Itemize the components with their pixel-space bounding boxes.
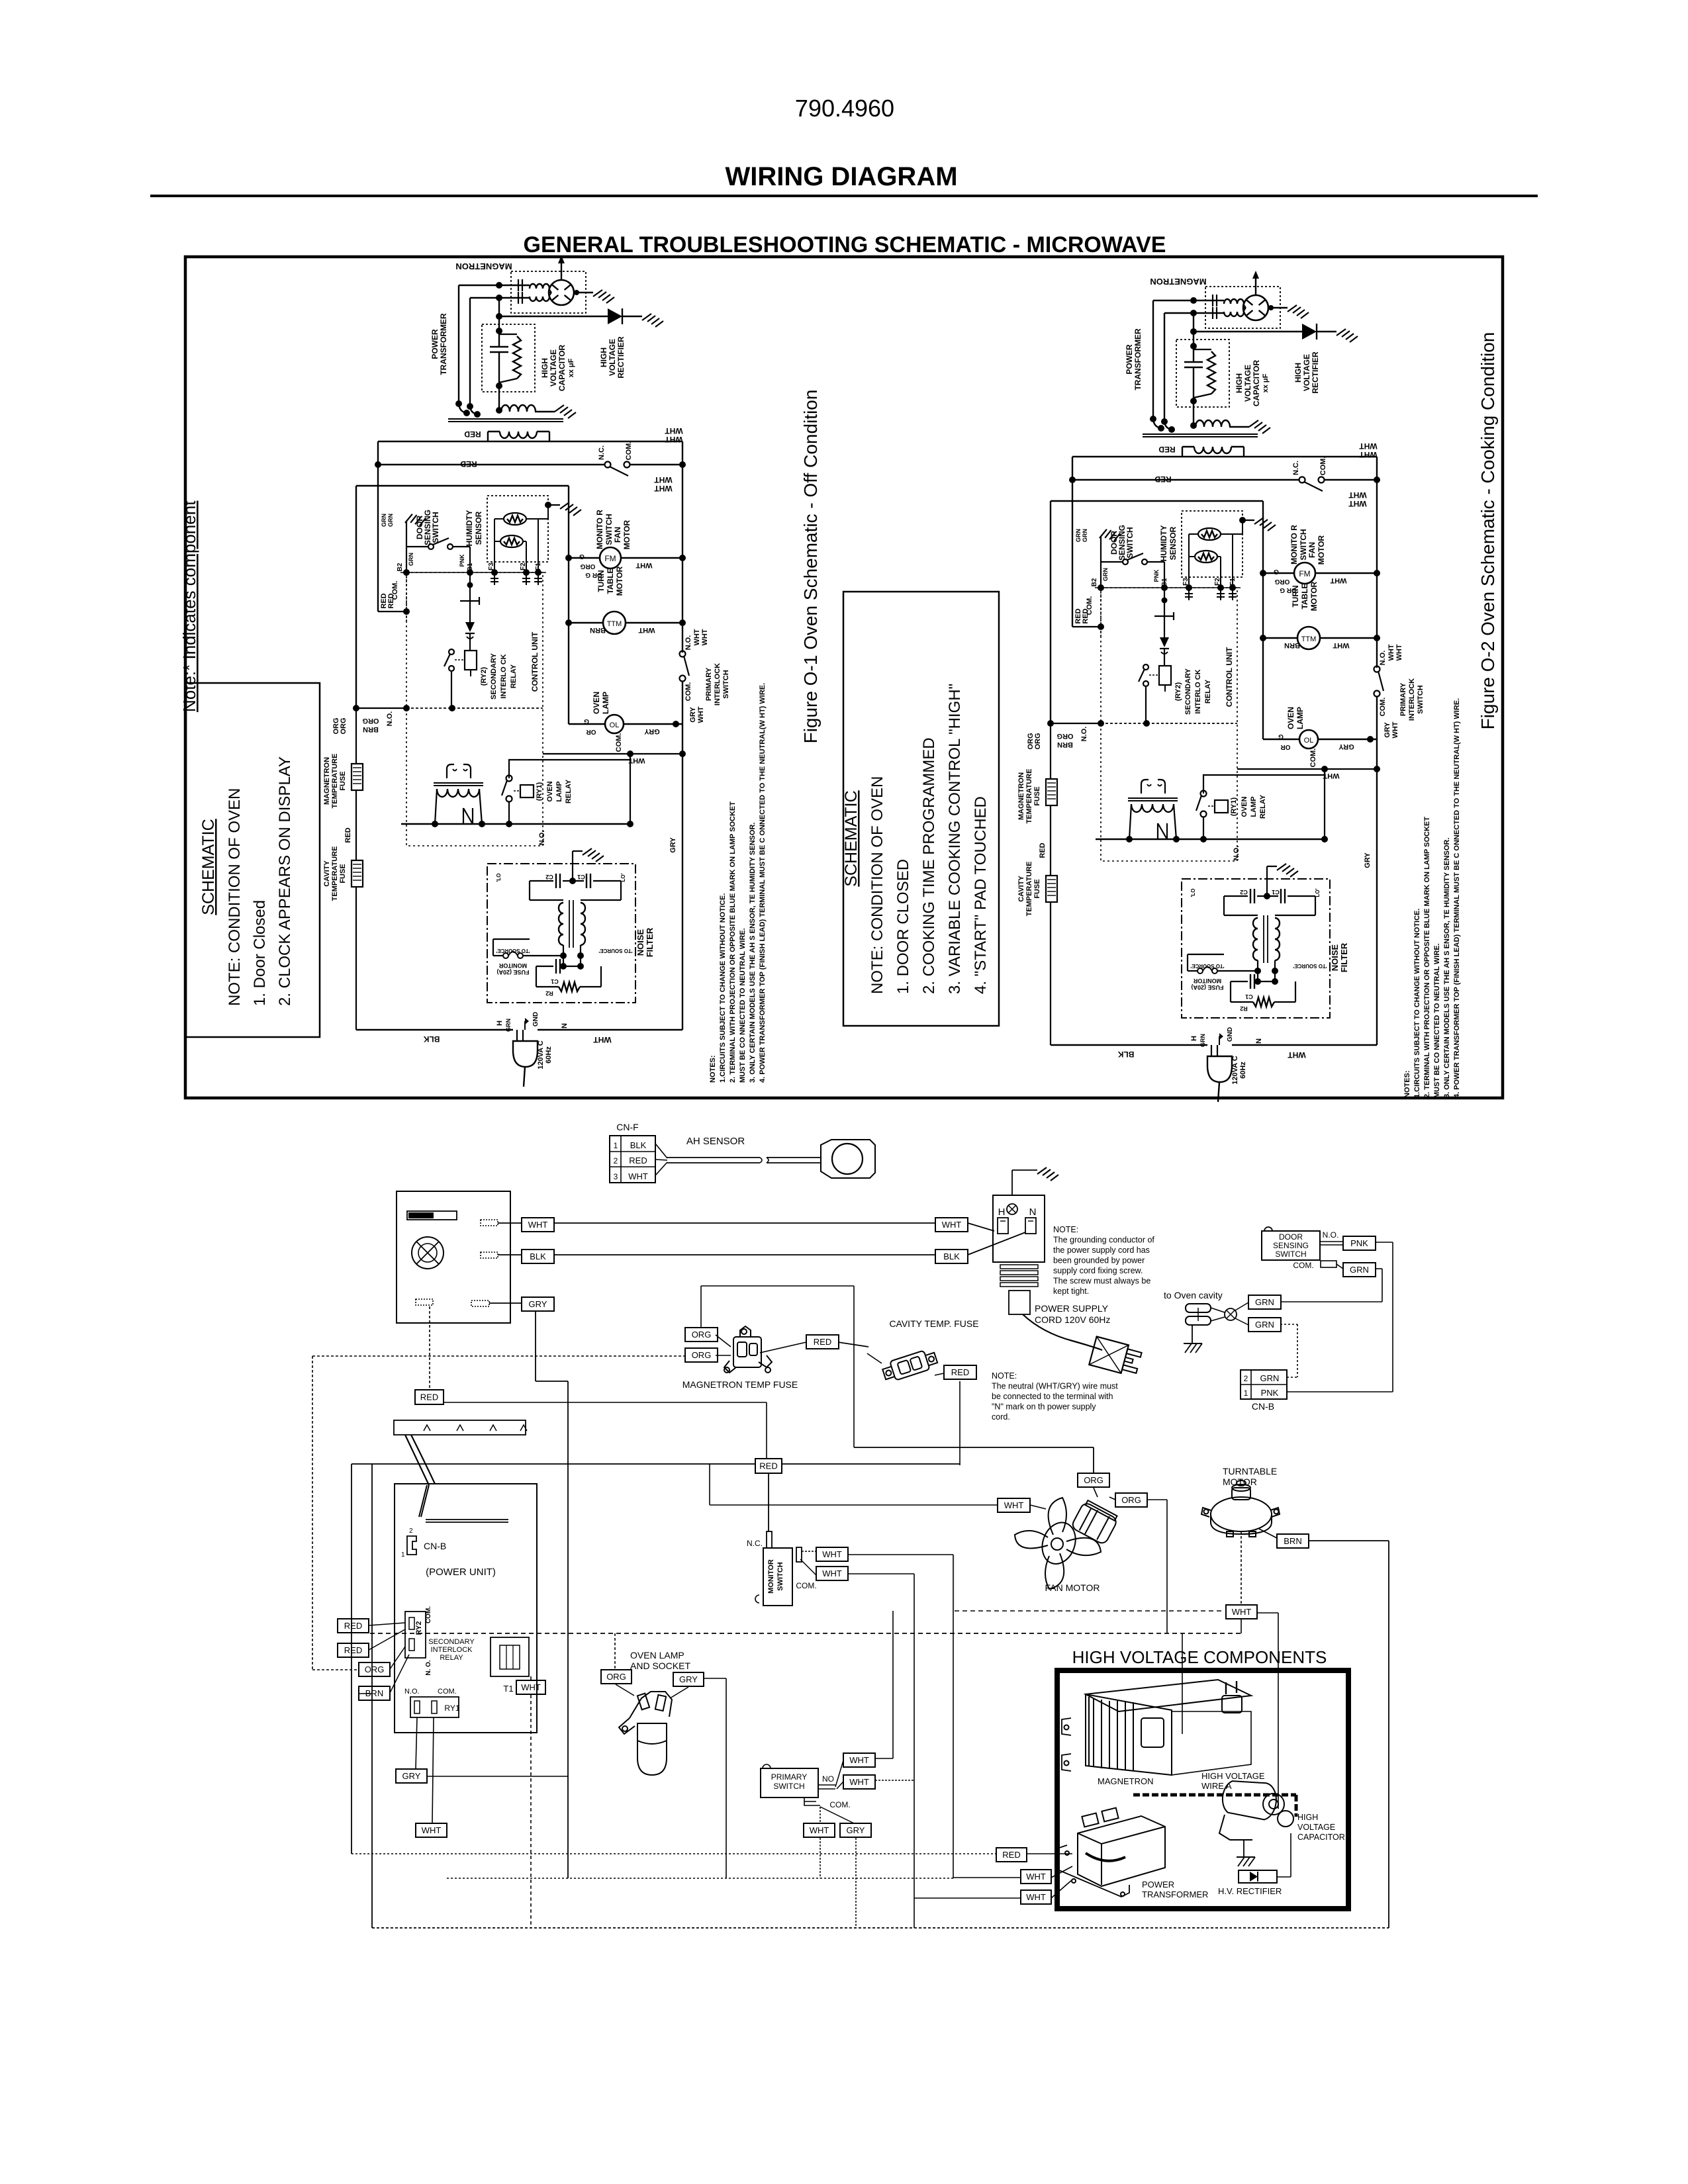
svg-text:WHT: WHT (849, 1777, 869, 1787)
svg-text:1. Door Closed: 1. Door Closed (251, 900, 269, 1006)
svg-text:WHT: WHT (942, 1220, 962, 1230)
svg-text:MOTOR: MOTOR (1223, 1477, 1257, 1487)
power unit box (395, 1484, 537, 1733)
svg-text:RED: RED (951, 1367, 969, 1377)
control panel assembly (397, 1191, 510, 1323)
wire RED panel down (429, 1306, 430, 1390)
svg-text:been grounded by power: been grounded by power (1053, 1256, 1145, 1265)
svg-text:N.C.: N.C. (747, 1539, 763, 1548)
svg-text:790.4960: 790.4960 (795, 95, 894, 122)
svg-text:N.O.: N.O. (1323, 1230, 1339, 1240)
wire primary WHT routing (875, 1758, 893, 1759)
svg-text:WHT: WHT (521, 1682, 541, 1692)
chassis rail (394, 1420, 526, 1435)
svg-text:NOTE: CONDITION OF OVEN: NOTE: CONDITION OF OVEN (868, 776, 886, 994)
svg-text:H.V. RECTIFIER: H.V. RECTIFIER (1218, 1886, 1282, 1896)
svg-text:VOLTAGE: VOLTAGE (1297, 1823, 1335, 1832)
svg-text:COM.: COM. (829, 1800, 850, 1809)
svg-text:SWITCH: SWITCH (776, 1562, 784, 1590)
svg-text:T1: T1 (503, 1684, 513, 1694)
svg-text:GRN: GRN (1255, 1320, 1274, 1330)
cavity ground symbol (1192, 1325, 1193, 1343)
svg-text:1: 1 (614, 1141, 618, 1150)
svg-text:WIRING DIAGRAM: WIRING DIAGRAM (725, 162, 957, 191)
wire long dashed bus (370, 1633, 1241, 1634)
svg-text:Figure O-1 Oven Schematic - Of: Figure O-1 Oven Schematic - Off Conditio… (800, 390, 821, 744)
svg-text:The grounding conductor of: The grounding conductor of (1053, 1236, 1154, 1245)
svg-text:GRY: GRY (529, 1299, 547, 1309)
svg-text:SCHEMATIC: SCHEMATIC (842, 790, 861, 886)
svg-text:4. "START" PAD TOUCHED: 4. "START" PAD TOUCHED (972, 796, 990, 994)
high voltage capacitor drawing (1219, 1778, 1293, 1840)
svg-text:RED: RED (1002, 1850, 1020, 1860)
svg-text:GENERAL TROUBLESHOOTING SCHEMA: GENERAL TROUBLESHOOTING SCHEMATIC - MICR… (524, 232, 1166, 257)
svg-text:MAGNETRON TEMP FUSE: MAGNETRON TEMP FUSE (682, 1379, 798, 1390)
svg-text:to Oven cavity: to Oven cavity (1164, 1290, 1223, 1300)
svg-text:WHT: WHT (849, 1755, 869, 1765)
svg-text:RED: RED (629, 1156, 647, 1165)
wire lower dotted buses (447, 1878, 953, 1879)
svg-text:RY1: RY1 (444, 1704, 459, 1713)
svg-text:ORG: ORG (365, 1664, 385, 1674)
svg-text:NOTE:: NOTE: (1053, 1225, 1078, 1234)
wire GRY box right (427, 1776, 568, 1777)
svg-text:MONITOR: MONITOR (767, 1559, 775, 1594)
svg-text:WHT: WHT (1232, 1607, 1252, 1617)
AH sensor head (821, 1140, 875, 1178)
svg-text:RED: RED (344, 1621, 362, 1631)
svg-text:SWITCH: SWITCH (1275, 1250, 1306, 1259)
svg-text:RED: RED (814, 1337, 831, 1347)
svg-text:OVEN LAMP: OVEN LAMP (630, 1650, 684, 1661)
connector CN-B power unit (407, 1536, 416, 1555)
svg-text:the power supply cord has: the power supply cord has (1053, 1246, 1150, 1255)
svg-text:ORG: ORG (692, 1330, 712, 1340)
left label boxes RED RED ORG BRN (338, 1619, 369, 1633)
right schematic note box (843, 592, 999, 1026)
magnetron drawing (1062, 1680, 1251, 1775)
svg-text:GRN: GRN (1255, 1297, 1274, 1307)
svg-text:WHT: WHT (1026, 1892, 1046, 1902)
svg-text:POWER: POWER (1142, 1880, 1174, 1889)
svg-text:GRY: GRY (847, 1825, 865, 1835)
power transformer drawing (1059, 1808, 1165, 1897)
svg-text:2: 2 (1244, 1374, 1248, 1383)
svg-text:HIGH: HIGH (1297, 1813, 1318, 1822)
svg-text:CN-B: CN-B (1252, 1401, 1274, 1412)
svg-text:BRN: BRN (1284, 1536, 1301, 1546)
svg-text:"N" mark on th power su: "N" mark on th power supply (992, 1402, 1096, 1412)
connector CN-B right (1241, 1370, 1287, 1399)
svg-text:CAPACITOR: CAPACITOR (1297, 1833, 1345, 1842)
AH sensor cable (655, 1144, 667, 1158)
cord strain relief (1000, 1265, 1038, 1269)
turntable BRN wire (1259, 1529, 1277, 1538)
svg-text:kept tight.: kept tight. (1053, 1287, 1089, 1296)
svg-text:PNK: PNK (1350, 1238, 1368, 1248)
wire monitor WHT routing (848, 1554, 953, 1555)
monitor switch module (768, 1473, 769, 1531)
svg-text:BLK: BLK (530, 1251, 546, 1261)
svg-text:2. COOKING TIME PROGRAMMED: 2. COOKING TIME PROGRAMMED (920, 737, 938, 994)
svg-text:Note:* Indicates component: Note:* Indicates component (179, 500, 199, 712)
HV component labels RED WHT WHT (996, 1848, 1027, 1862)
power supply cord module (993, 1195, 1045, 1262)
svg-text:MAGNETRON: MAGNETRON (1098, 1776, 1154, 1786)
svg-text:(POWER UNIT): (POWER UNIT) (426, 1567, 496, 1578)
svg-text:WHT: WHT (810, 1825, 829, 1835)
svg-text:NO: NO (822, 1774, 834, 1784)
svg-text:SECONDARY: SECONDARY (428, 1638, 475, 1646)
svg-text:WHT: WHT (822, 1569, 842, 1578)
svg-text:WHT: WHT (422, 1825, 442, 1835)
svg-text:SCHEMATIC: SCHEMATIC (199, 819, 218, 915)
svg-text:1. DOOR CLOSED: 1. DOOR CLOSED (894, 859, 912, 994)
right oven schematic figure O-2 (1017, 271, 1461, 1102)
svg-text:ORG: ORG (1084, 1475, 1103, 1485)
wire GRN loop (1376, 1268, 1382, 1269)
svg-text:RED: RED (420, 1392, 438, 1402)
svg-text:SENSING: SENSING (1273, 1241, 1309, 1250)
svg-text:3. VARIABLE COOKING CONTROL "H: 3. VARIABLE COOKING CONTROL "HIGH" (946, 684, 964, 994)
svg-text:CN-F: CN-F (616, 1122, 638, 1132)
svg-text:TURNTABLE: TURNTABLE (1223, 1466, 1277, 1477)
svg-text:WHT: WHT (528, 1220, 548, 1230)
svg-text:TRANSFORMER: TRANSFORMER (1142, 1889, 1208, 1899)
cavity temp fuse assembly (881, 1347, 939, 1383)
wire WHT to HV box (1257, 1612, 1278, 1614)
svg-text:FAN MOTOR: FAN MOTOR (1045, 1582, 1100, 1593)
wire left rails (351, 1464, 352, 1854)
AC plug (1089, 1337, 1143, 1377)
title rule (150, 195, 1538, 197)
svg-text:N.O.: N.O. (404, 1688, 420, 1696)
svg-text:ORG: ORG (692, 1350, 712, 1360)
svg-text:GRY: GRY (402, 1771, 421, 1781)
wire BLK panel to cord (498, 1254, 522, 1255)
svg-text:CAVITY TEMP. FUSE: CAVITY TEMP. FUSE (889, 1318, 978, 1329)
relay RY2 power unit (405, 1612, 426, 1658)
svg-text:DOOR: DOOR (1279, 1232, 1303, 1242)
magnetron temp fuse assembly (685, 1328, 718, 1342)
wire cavity fuse to RED2 (935, 1373, 944, 1375)
svg-text:NOTE: CONDITION OF OVEN: NOTE: CONDITION OF OVEN (226, 788, 244, 1006)
svg-text:COM.: COM. (796, 1581, 816, 1590)
svg-text:H: H (998, 1206, 1006, 1218)
svg-text:N. O.: N. O. (425, 1660, 432, 1676)
oven cavity ground tabs (1186, 1304, 1211, 1312)
svg-text:POWER SUPPLY: POWER SUPPLY (1035, 1303, 1109, 1314)
door sensing switch module (1262, 1231, 1320, 1260)
svg-text:GRN: GRN (1260, 1373, 1280, 1383)
wire fuse to RED (760, 1342, 806, 1353)
svg-text:WHT: WHT (1004, 1500, 1024, 1510)
svg-text:ORG: ORG (1121, 1495, 1141, 1505)
high voltage components box (1057, 1670, 1348, 1909)
svg-text:BLK: BLK (630, 1140, 647, 1150)
svg-text:N: N (1029, 1206, 1037, 1218)
svg-text:HIGH VOLTAGE: HIGH VOLTAGE (1201, 1771, 1265, 1781)
cord ground wire (1011, 1170, 1013, 1195)
svg-text:2: 2 (409, 1527, 413, 1535)
wire WHT T1 rail (516, 1680, 545, 1694)
left oven schematic figure O-1 (323, 255, 767, 1087)
svg-text:supply cord fixing screw.: supply cord fixing screw. (1053, 1266, 1143, 1275)
control panel connector stubs (481, 1220, 498, 1226)
HV box internal wires (1182, 1633, 1183, 1734)
wire ORG dashed feeder (312, 1355, 685, 1357)
turntable motor assembly (1201, 1480, 1280, 1537)
svg-text:WHT: WHT (628, 1171, 648, 1181)
cable curve to power unit (405, 1435, 429, 1485)
monitor switch WHT boxes (802, 1551, 816, 1552)
svg-text:INTERLOCK: INTERLOCK (431, 1646, 473, 1654)
fan motor assembly (1015, 1498, 1119, 1589)
svg-text:WHT: WHT (1026, 1872, 1046, 1882)
svg-text:AND SOCKET: AND SOCKET (630, 1661, 690, 1671)
power unit slot (426, 1519, 508, 1520)
svg-text:RELAY: RELAY (440, 1654, 463, 1662)
connector CN-F table (610, 1136, 655, 1183)
transformer T1 (491, 1637, 529, 1676)
svg-text:The screw must always be: The screw must always be (1053, 1277, 1150, 1286)
primary switch COM (804, 1797, 820, 1805)
svg-text:1: 1 (401, 1551, 405, 1559)
svg-text:Figure O-2 Oven Schematic - Co: Figure O-2 Oven Schematic - Cooking Cond… (1477, 332, 1498, 730)
svg-text:CN-B: CN-B (424, 1541, 446, 1551)
svg-text:3: 3 (614, 1172, 618, 1181)
svg-text:SWITCH: SWITCH (773, 1782, 804, 1791)
svg-text:COM.: COM. (1293, 1261, 1313, 1270)
turntable WHT wire (1241, 1531, 1242, 1605)
wire ORG feeder loop (700, 1286, 702, 1328)
svg-text:NOTE:: NOTE: (992, 1371, 1017, 1381)
svg-text:cord.: cord. (992, 1412, 1010, 1422)
svg-text:GRN: GRN (1350, 1265, 1369, 1275)
wire GRN cavity boxes (1235, 1302, 1248, 1310)
wire RED bus band B (352, 1463, 755, 1465)
svg-text:RED: RED (344, 1645, 362, 1655)
svg-text:HIGH VOLTAGE COMPONENTS: HIGH VOLTAGE COMPONENTS (1072, 1647, 1327, 1667)
svg-text:The neutral (WHT/GRY) wire mus: The neutral (WHT/GRY) wire must (992, 1382, 1118, 1391)
svg-text:2: 2 (614, 1156, 618, 1165)
svg-text:BLK: BLK (943, 1251, 960, 1261)
wire RY1 to GRY WHT boxes (416, 1717, 417, 1769)
primary switch module (761, 1768, 818, 1797)
capacitor ground (1243, 1840, 1244, 1857)
svg-text:RED: RED (759, 1461, 777, 1471)
svg-text:AH SENSOR: AH SENSOR (686, 1136, 745, 1147)
svg-text:CORD 120V 60Hz: CORD 120V 60Hz (1035, 1314, 1110, 1325)
svg-text:GRY: GRY (679, 1674, 698, 1684)
svg-text:ORG: ORG (606, 1672, 626, 1682)
schematic outer border box (185, 257, 1503, 1098)
svg-text:2. CLOCK APPEARS ON DISPLAY: 2. CLOCK APPEARS ON DISPLAY (276, 756, 294, 1006)
svg-text:PRIMARY: PRIMARY (771, 1772, 807, 1782)
wire PNK to CN-B (1376, 1242, 1393, 1243)
wire GRY lamp right (704, 1678, 726, 1679)
svg-text:COM.: COM. (438, 1688, 457, 1696)
svg-text:WHT: WHT (822, 1549, 842, 1559)
power cord to plug (1023, 1314, 1102, 1350)
fan motor labels (998, 1498, 1030, 1512)
wire GRY panel down (489, 1302, 522, 1304)
svg-text:COM.: COM. (425, 1606, 432, 1623)
svg-text:1: 1 (1244, 1388, 1248, 1398)
HV rectifier drawing (1239, 1870, 1277, 1883)
high voltage wire A (1133, 1794, 1296, 1797)
left schematic note box (186, 683, 320, 1037)
svg-text:be connected to the terminal w: be connected to the terminal with (992, 1392, 1113, 1401)
svg-text:PNK: PNK (1261, 1388, 1279, 1398)
wire WHT panel to cord (498, 1222, 522, 1224)
